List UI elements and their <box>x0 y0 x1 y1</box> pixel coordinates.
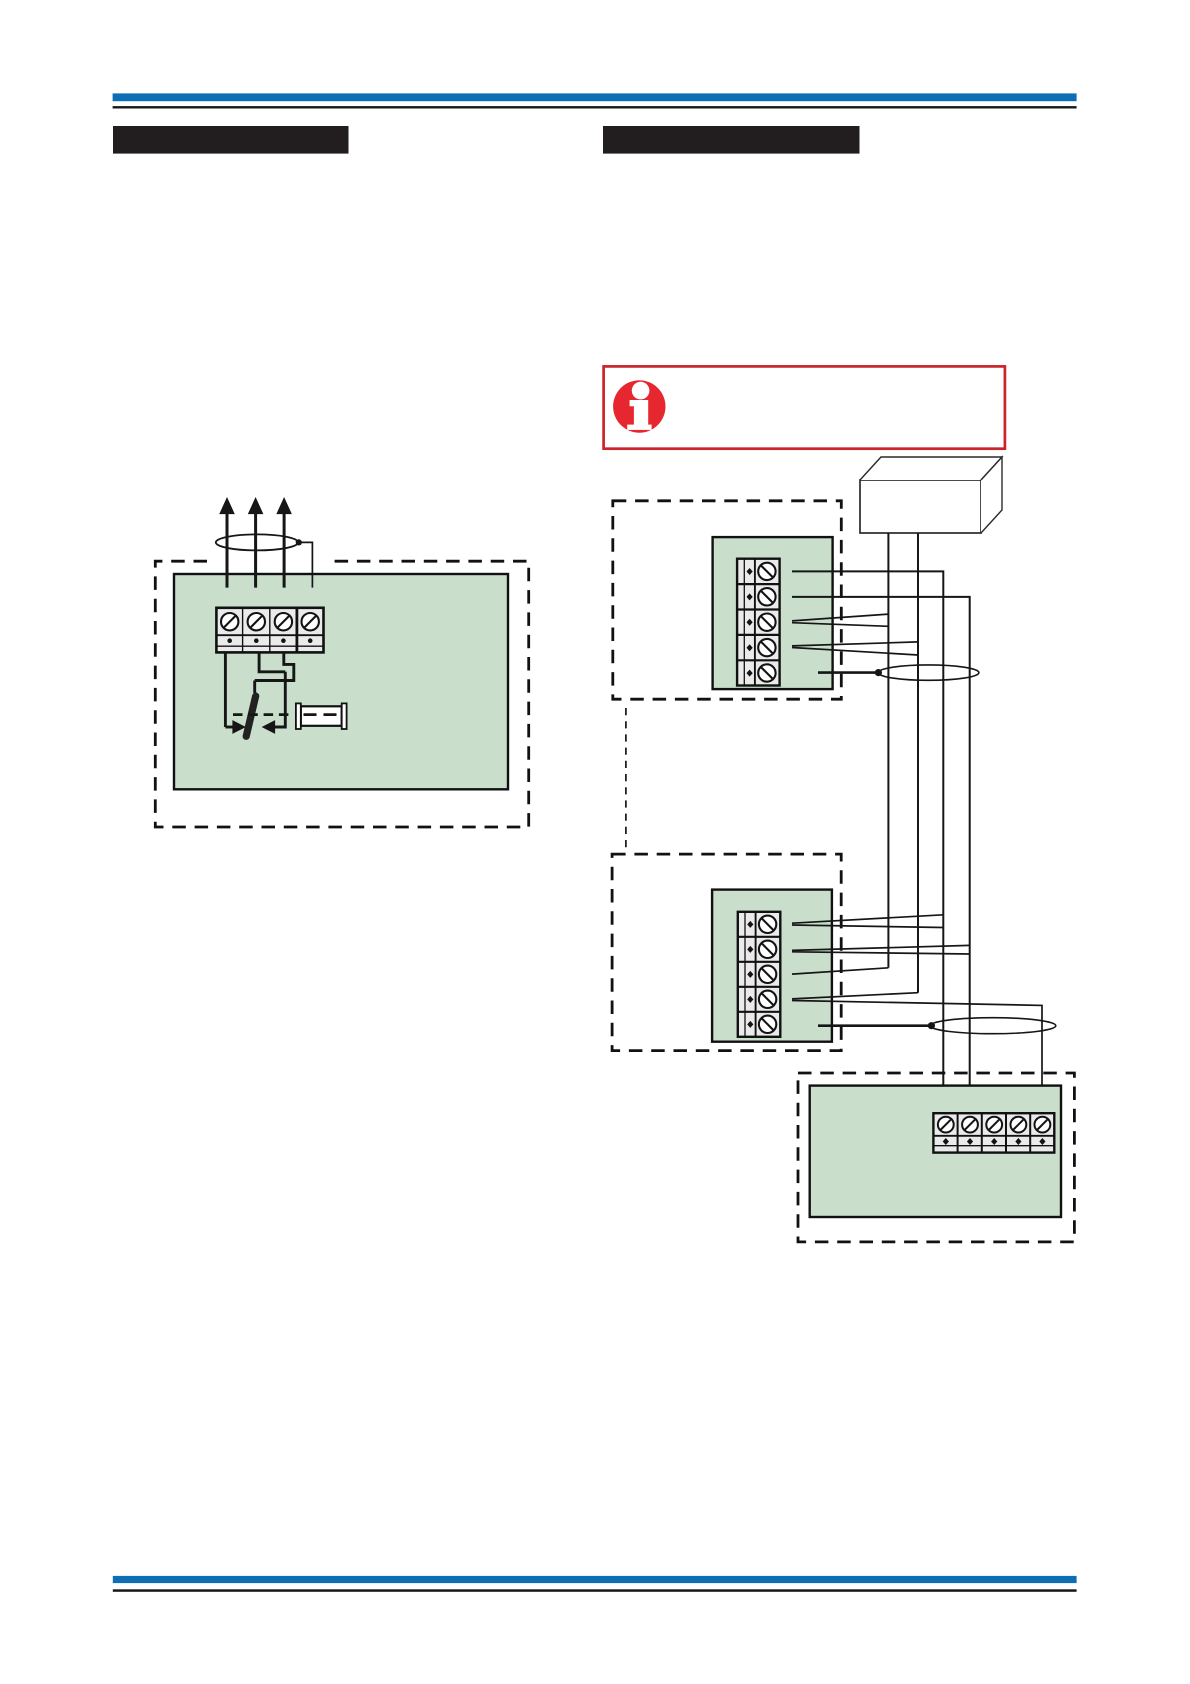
X1 column dividers <box>744 559 755 686</box>
controller box U1 side face <box>981 457 1002 533</box>
cable bundle ellipse left <box>216 534 298 550</box>
green panel room unit <box>810 1086 1061 1217</box>
dashed enclosure module 1 <box>613 501 842 699</box>
terminal strip X2 body <box>738 912 781 1037</box>
wire common down to right contact <box>274 672 286 727</box>
redacted heading left <box>113 126 349 154</box>
actuator link dashed <box>233 713 294 716</box>
wire X1-5 screen <box>818 671 878 674</box>
green panel boiler PCB <box>174 574 508 789</box>
X3 pin diamonds <box>943 1138 1046 1145</box>
X3 row dividers <box>933 1136 1054 1146</box>
X1 row dividers <box>737 584 780 660</box>
X2 screws 1-5 <box>759 916 776 1033</box>
X2 row dividers <box>738 937 781 1012</box>
wire X1-3 out down <box>792 623 888 627</box>
wire bus B into X1-4 <box>792 642 918 646</box>
redacted heading right <box>603 126 860 154</box>
wire TB1-1 down to left contact <box>224 652 227 727</box>
X1 pin diamonds <box>747 568 753 677</box>
screen ellipse module2 <box>930 1018 1056 1034</box>
TB1 screw 2 <box>248 613 265 630</box>
wire X1-2 to riser D <box>792 597 970 1094</box>
TB1 screw 3 <box>275 613 292 630</box>
info icon <box>613 380 665 432</box>
wire X2-2 out to riser D2 <box>792 952 970 954</box>
green panel module 2 <box>712 890 832 1042</box>
wire X2-4 out to riser E <box>792 1001 1042 1095</box>
screen dot module2 <box>928 1022 935 1029</box>
wire arrow L3 <box>283 513 286 588</box>
wire X2-5 screen <box>818 1024 931 1027</box>
green panel module 1 <box>713 537 833 689</box>
wire X2-1 out to riser C2 <box>792 925 943 928</box>
TH1 dashed centre line <box>304 713 337 716</box>
wire pivot stub <box>253 681 256 694</box>
X2 column dividers <box>745 912 756 1037</box>
X3 screws 1-5 <box>938 1117 1050 1133</box>
wire arrow L2 <box>254 513 257 588</box>
wire riser C into X2-1 <box>792 915 943 923</box>
wire riser D into X2-2 <box>792 945 970 950</box>
info note box <box>604 366 1005 448</box>
wire X1-1 to riser C <box>792 571 943 1094</box>
terminal strip X1 body <box>737 559 780 686</box>
arrow contact right <box>263 721 275 733</box>
wire from bundle dot to terminal 4 <box>299 542 313 587</box>
wire arrow L1 <box>226 513 229 588</box>
dashed enclosure module 2 <box>612 854 841 1051</box>
arrow contact left <box>233 721 245 733</box>
switch blade SW1 <box>246 696 256 736</box>
TB1 screw 1 <box>221 613 238 630</box>
footer rule black <box>113 1589 1077 1592</box>
wire bus B from U1 <box>917 533 919 993</box>
wire bus A into X2-3 <box>792 968 888 974</box>
TB1 screw 4 <box>302 613 319 630</box>
X2 pin diamonds <box>747 921 753 1028</box>
header rule blue <box>113 93 1077 101</box>
TB1 pin dots <box>227 638 312 643</box>
thermal actuator TH1 body <box>301 706 342 726</box>
dashed link between modules <box>625 708 627 849</box>
wire bus B into X2-4 <box>792 993 918 999</box>
terminal strip X3 body <box>933 1113 1054 1152</box>
footer rule blue <box>113 1576 1077 1583</box>
wire X1-4 out down <box>792 648 918 656</box>
terminal block TB1 body <box>216 608 323 653</box>
junction dot left bundle <box>296 539 302 545</box>
TB1 cell dividers <box>216 608 323 653</box>
wire TB1-2 jog <box>259 652 285 671</box>
wire TB1-3 zigzag <box>255 652 294 680</box>
screen ellipse module1 <box>878 665 979 680</box>
TH1 end cap right <box>342 703 347 729</box>
controller box U1 top face <box>860 457 1002 480</box>
TH1 end cap left <box>296 703 301 729</box>
header rule black <box>113 106 1077 108</box>
dashed enclosure boiler (gap on top edge for wires) <box>155 561 528 827</box>
screen dot module1 <box>875 669 882 676</box>
X3 cell dividers <box>958 1113 1031 1152</box>
wire bus A into X1-3 <box>792 614 888 621</box>
wire bus A from U1 <box>887 533 889 968</box>
dashed enclosure room unit <box>798 1073 1074 1242</box>
X1 screws 1-5 <box>758 563 775 682</box>
controller box U1 front <box>860 480 981 533</box>
